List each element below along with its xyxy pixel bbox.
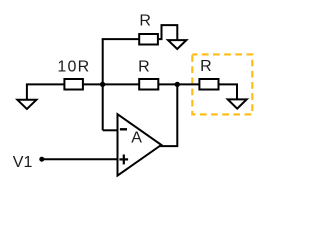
resistor R (right, selected) [199, 79, 218, 90]
svg-text:R: R [138, 58, 150, 75]
svg-text:A: A [131, 129, 142, 146]
label A (op-amp) [131, 129, 142, 146]
node junction B (output node) [175, 82, 180, 87]
wire: left ground riser and horizontal to 10R [27, 84, 65, 99]
wire: right R to right ground [219, 84, 238, 99]
label V1 (source) [13, 154, 33, 171]
ground (left) [17, 100, 36, 109]
svg-text:R: R [200, 58, 212, 75]
op-amp minus pin marker [120, 128, 127, 130]
svg-text:V1: V1 [13, 154, 33, 171]
wire: feedback into op-amp minus input [103, 129, 118, 131]
svg-text:R: R [139, 13, 151, 30]
resistor R (middle) [139, 79, 158, 90]
resistor 10R [64, 79, 83, 90]
node junction A (inverting input node) [100, 82, 105, 87]
op-amp U1 [118, 114, 162, 175]
wire: top horizontal to feedback resistor [102, 38, 140, 40]
wire: top resistor to top-right ground (jog up and over) [158, 25, 177, 40]
node V1 terminal dot [39, 157, 44, 162]
label R (top) [139, 13, 151, 30]
label 10R [57, 58, 90, 75]
ground (right, inside selection) [228, 99, 247, 108]
svg-text:10R: 10R [57, 58, 90, 75]
wire: op-amp output right and up to node B [160, 84, 177, 146]
wire: 10R to middle R [83, 83, 139, 85]
ground (top right) [168, 40, 186, 49]
highlight dashed selection box around right resistor [192, 54, 252, 114]
label R (right) [200, 58, 212, 75]
wire: middle R to right R [158, 83, 199, 85]
wire: feedback vertical from top wire down to op-amp minus level [102, 39, 104, 130]
label R (middle) [138, 58, 150, 75]
resistor R (feedback, top) [139, 34, 158, 45]
op-amp plus pin marker [119, 158, 128, 160]
wire: V1 to op-amp plus input [42, 158, 118, 160]
